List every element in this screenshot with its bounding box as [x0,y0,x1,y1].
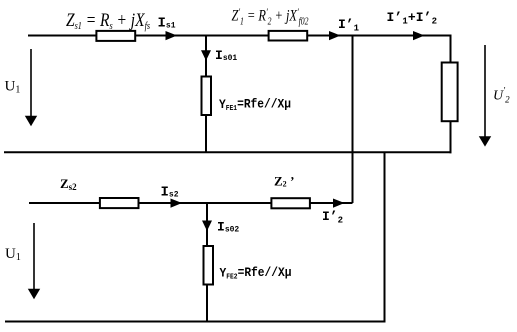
wire shunt branch 1 [205,36,207,153]
wire U1 arrow shaft bottom [33,223,35,291]
arrow after Z'1 [329,31,341,40]
svg-text:Is01: Is01 [215,48,237,63]
resistor Zs2 [100,198,139,208]
resistor load U'2 [442,63,458,122]
wire right vertical rail link [384,152,386,322]
svg-text:Zs2: Zs2 [60,176,77,192]
svg-text:Z2’: Z2’ [274,174,295,189]
svg-text:YFE2=Rfe//Xμ: YFE2=Rfe//Xμ [220,266,292,282]
wire bottom secondary horizontal [29,202,353,204]
wire top circuit bottom rail [4,151,452,153]
arrow Is02 [202,221,212,232]
svg-text:Z′1 = R′2 + jX′f02: Z′1 = R′2 + jX′f02 [232,7,309,27]
svg-text:I’1+I’2: I’1+I’2 [387,10,438,27]
svg-text:Zs1 = Rs + jXfs: Zs1 = Rs + jXfs [66,10,150,32]
arrow U1 bottom head [28,289,40,299]
wire bottom circuit bottom rail [5,321,386,323]
svg-text:U′2: U′2 [493,86,510,105]
arrow U'2 head [479,136,491,146]
arrow I'2 [333,199,345,208]
svg-text:Is1: Is1 [158,16,176,32]
resistor Z'1 [269,31,308,41]
wire node I'1 vertical link [352,35,354,204]
wire load bottom to rail [450,121,452,153]
svg-text:U1: U1 [5,246,21,263]
wire U1 arrow shaft top [30,49,32,118]
svg-text:I’2: I’2 [322,209,343,226]
svg-text:I’1: I’1 [338,17,360,34]
svg-text:U1: U1 [5,79,21,96]
wire right drop to load [450,35,452,64]
wire top primary horizontal [28,35,451,37]
svg-text:Is02: Is02 [217,220,239,235]
arrow Is1 [166,31,178,40]
arrow U1 top head [25,116,37,126]
wire U'2 arrow shaft [484,45,486,139]
svg-text:Is2: Is2 [161,185,179,201]
arrow Is01 [201,50,211,60]
resistor YFE2 [204,246,214,285]
arrow Is2 [171,199,183,208]
wire shunt branch 2 [206,203,208,322]
arrow I'1+I'2 [413,31,425,40]
svg-text:YFE1=Rfe//Xμ: YFE1=Rfe//Xμ [219,98,291,114]
resistor YFE1 [202,77,212,116]
resistor Zs1 [96,31,135,41]
resistor Z2' [271,198,310,208]
